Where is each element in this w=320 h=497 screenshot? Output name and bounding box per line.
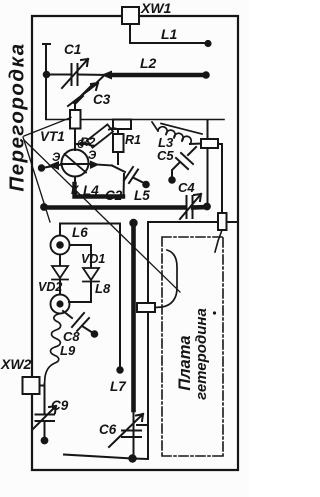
capacitor C5 [172,147,196,177]
leader line 3 [23,137,50,222]
feedthrough box B2 [190,143,201,146]
collector lead [74,177,76,186]
wire compartment top [60,223,120,225]
partition label [6,42,29,191]
wire stub to wall [43,44,50,119]
diode VD1 [83,268,99,282]
svg-text:гетеродина: гетеродина [193,308,210,400]
resistor R1 [113,134,124,152]
capacitor C8 (diagonal) [63,311,93,333]
wire L4 to C2 node [123,174,126,197]
node dot C2 end [142,181,150,189]
svg-text:L2: L2 [140,55,157,71]
transistor VT1 [62,150,89,177]
connector XW2 [23,377,40,394]
node dot L1 end [204,40,211,47]
svg-text:C8: C8 [63,329,80,344]
svg-text:C6: C6 [99,422,117,437]
svg-text:Плата: Плата [176,335,194,390]
wire base lead [74,129,76,151]
capacitor C2 (diagonal) [112,166,146,185]
svg-text:L4: L4 [83,183,99,198]
svg-text:XW1: XW1 [140,0,172,16]
stripline L4 [75,184,124,197]
feedthrough capacitor on wall [70,110,81,129]
artifact dot [213,311,216,314]
capacitor C4 (trimmer) [180,194,201,219]
coupling loop wire [155,250,177,308]
node dot L2 end [202,71,210,79]
leader line 2 [24,140,180,292]
node dot L5 left [40,203,48,211]
stripline L2 [109,73,205,78]
L2 taper wedge [101,71,112,80]
coil turn L6 lower [51,295,70,314]
connector XW1 [122,7,139,24]
capacitor C1 (trimmer) [62,59,88,88]
capacitor C3 (trimmer, diagonal) [68,77,103,111]
node dot C5 end [168,176,176,184]
node dot L5 right [203,203,211,211]
wire L5 end to wall [207,121,209,204]
wire left branch down [59,224,61,236]
wire A2 left [133,222,218,459]
wire to VD2 [59,255,61,267]
inductor L3 [152,122,202,144]
R1 leads [117,129,119,164]
svg-text:VD1: VD1 [81,252,105,266]
wire C1 branch [46,74,109,77]
stripline L5 [44,205,207,210]
svg-text:C1: C1 [64,42,81,57]
svg-text:C3: C3 [93,92,111,107]
wire VD2 to lower turn [59,280,61,295]
coupling element on L7 [137,303,155,312]
partition wall (horizontal) [46,119,224,121]
wire XW2 stub [40,384,45,414]
svg-text:L6: L6 [72,225,88,240]
node dot C8 end [91,330,99,338]
svg-text:б: б [77,139,85,151]
svg-text:C4: C4 [178,180,195,195]
node A [43,71,51,79]
capacitor C6 (trimmer) [109,414,146,447]
board text [176,335,194,390]
wire L7 tap [119,224,121,368]
svg-text:L8: L8 [95,281,111,296]
node dot tap end [116,366,123,373]
svg-text:C2: C2 [105,188,123,203]
capacitor C9 (trimmer) [33,406,56,429]
svg-text:VD2: VD2 [38,280,62,294]
svg-text:XW2: XW2 [0,356,32,372]
node dot C6 bottom [128,454,136,462]
svg-text:R1: R1 [125,133,141,147]
wire A2 right to frame [227,221,239,223]
svg-text:C9: C9 [51,398,69,413]
svg-text:VT1: VT1 [40,129,65,144]
heterodyne board box (dash-dot) [162,237,223,456]
right branch wire [70,245,92,267]
svg-text:Перегородка: Перегородка [6,42,29,191]
svg-text:C5: C5 [157,148,174,163]
lead right [89,164,113,166]
svg-text:L9: L9 [60,343,76,358]
wire R2 leads [77,128,117,144]
shield frame [32,16,238,470]
node dot C9 end [41,437,49,445]
stripline L7 [131,223,136,410]
leader line 1 [24,118,71,137]
inductor L9 zigzag [45,314,61,385]
wire B2 to corner [218,144,222,213]
emitter lead left [42,164,89,168]
node dot emitter end [38,164,45,171]
coil turn L6 upper [51,236,70,255]
svg-text:Э: Э [52,152,61,164]
bottom wire [64,455,132,459]
wire tail into board [215,230,222,252]
wire from XW1 [130,24,208,43]
svg-text:Э: Э [88,150,97,162]
svg-text:L1: L1 [161,26,178,42]
svg-text:L7: L7 [110,379,127,394]
feedthrough box A2 [218,213,227,230]
wire C9 down [44,421,46,439]
wire VD1 down [69,282,91,303]
feedthrough box on wall (right) [113,120,131,130]
resistor R2 (diagonal) [87,124,113,147]
svg-text:L5: L5 [134,188,150,203]
diode VD2 [52,266,68,280]
